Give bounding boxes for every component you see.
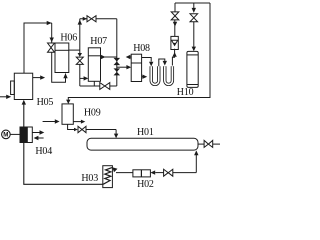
svg-text:H08: H08	[133, 43, 150, 54]
svg-text:H05: H05	[37, 97, 54, 108]
svg-text:H06: H06	[60, 33, 77, 44]
svg-text:H01: H01	[137, 127, 154, 138]
svg-text:M: M	[3, 132, 8, 139]
svg-text:H02: H02	[137, 179, 154, 190]
svg-text:H04: H04	[35, 146, 52, 157]
svg-text:H09: H09	[84, 107, 101, 118]
svg-text:H07: H07	[90, 36, 107, 47]
svg-text:H10: H10	[177, 87, 194, 98]
svg-text:H03: H03	[81, 173, 98, 184]
